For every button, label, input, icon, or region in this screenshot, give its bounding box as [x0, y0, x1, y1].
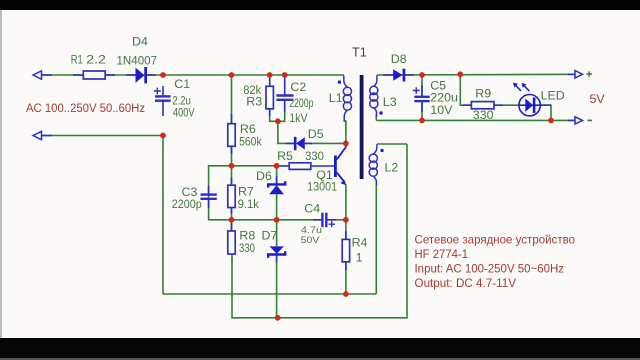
svg-text:330: 330 [239, 241, 255, 255]
node D7 bottom [275, 315, 281, 321]
winding L2 [369, 144, 377, 185]
L2 polarity dot [380, 149, 383, 152]
svg-text:L2: L2 [385, 161, 399, 175]
node emitter [343, 217, 349, 223]
wire R4 leads [345, 220, 347, 240]
node C5 top [419, 72, 425, 78]
wire L2 top to rail B [377, 143, 407, 145]
lead D5 sides [286, 142, 294, 144]
svg-text:Input: AC 100-250V 50~60Hz: Input: AC 100-250V 50~60Hz [415, 262, 565, 276]
svg-text:400V: 400V [173, 106, 195, 120]
lead C1 top [162, 86, 164, 96]
lead D8 left [383, 74, 393, 76]
bottom letterbox bar [0, 338, 640, 360]
svg-text:560k: 560k [239, 135, 262, 149]
svg-text:R1: R1 [71, 52, 83, 66]
wire rail A bottom [163, 293, 376, 295]
winding L1 [343, 76, 351, 122]
wire R9 to LED [494, 104, 519, 106]
lead R4 top [345, 231, 347, 239]
svg-text:2200p: 2200p [289, 96, 313, 110]
svg-text:R5: R5 [277, 149, 293, 163]
C1 plus sign [154, 88, 161, 95]
C5 plus sign [413, 87, 420, 94]
lead C5 top [421, 85, 423, 96]
svg-text:50V: 50V [301, 235, 320, 245]
lead C5 bottom [421, 101, 423, 112]
svg-text:C4: C4 [304, 202, 320, 216]
lead LED right [540, 104, 551, 106]
svg-text:1: 1 [356, 251, 363, 265]
capacitor C3 [201, 195, 217, 199]
resistor R9 [471, 102, 494, 109]
node C2 top [282, 72, 288, 78]
capacitor C2 [276, 96, 293, 100]
svg-text:R4: R4 [352, 235, 368, 249]
lead arrow bottom input [40, 135, 52, 137]
lead R7 top [231, 178, 233, 186]
lead D8 right [406, 74, 415, 76]
node R5 left [274, 163, 280, 169]
wire C1 column down to rail A [162, 136, 164, 295]
svg-text:R9: R9 [475, 86, 491, 100]
wire D6 D7 column [276, 166, 278, 184]
lead output minus arrow [568, 119, 581, 121]
lead C4 right [327, 219, 336, 221]
lead C2 bottom [284, 100, 286, 112]
terminal arrow out plus [575, 71, 583, 78]
lead C2 top [284, 75, 286, 95]
wire R9 branch [460, 74, 471, 105]
lead C3 up [208, 186, 210, 194]
capacitor C4 electrolytic horizontal [322, 213, 326, 228]
resistor R3 [266, 86, 273, 109]
wire rail B bottom [232, 144, 407, 318]
wire R8 leads [231, 220, 233, 231]
label plus terminal [587, 71, 593, 76]
wire R3 bottom join C2 bottom [270, 101, 285, 121]
terminal arrow AC top [33, 71, 42, 79]
capacitor C1 electrolytic [155, 96, 171, 100]
node R6 bottom [229, 163, 235, 169]
svg-text:5V: 5V [590, 92, 606, 106]
svg-text:330: 330 [305, 149, 324, 163]
lead D6 top [276, 176, 278, 184]
wire L2 bottom vertical [375, 184, 377, 294]
svg-text:D6: D6 [256, 169, 272, 183]
transformer core [360, 75, 364, 179]
L1 polarity dot [338, 80, 341, 83]
resistor R8 [228, 231, 235, 254]
lead R5 base wire [311, 165, 334, 167]
wire R6 column [231, 75, 233, 124]
node C2R3 bottom [275, 118, 281, 124]
node R3 top [267, 72, 273, 78]
svg-text:Сетевое зарядное устройство: Сетевое зарядное устройство [415, 232, 576, 246]
svg-text:L3: L3 [383, 95, 397, 109]
svg-text:1N4007: 1N4007 [117, 54, 158, 68]
svg-text:1kV: 1kV [289, 111, 308, 125]
svg-text:Output: DC 4.7-11V: Output: DC 4.7-11V [415, 276, 517, 290]
wire base line y=219.8 from R7 node to emitter node [232, 219, 322, 221]
blue component leads overlay [40, 74, 581, 270]
node C1 bottom [160, 133, 166, 139]
node R7 R8 [229, 217, 235, 223]
svg-text:D5: D5 [308, 127, 324, 141]
transistor Q1 [334, 143, 346, 185]
resistor R1 [83, 71, 105, 79]
lead R9 right [494, 104, 503, 106]
wire LED to bottom rail [540, 105, 551, 120]
wire L3 bottom stub down [375, 114, 377, 120]
svg-text:HF 2774-1: HF 2774-1 [415, 247, 469, 261]
node collector [343, 141, 349, 147]
wire C3 branch [209, 166, 232, 220]
svg-text:C1: C1 [174, 77, 190, 91]
lead output plus arrow [568, 73, 581, 75]
node R9 branch [457, 71, 463, 77]
wire output top rail [377, 73, 581, 76]
terminal arrow out minus [575, 117, 583, 124]
svg-text:D4: D4 [132, 35, 148, 49]
svg-text:13001: 13001 [307, 179, 337, 193]
wire emitter node vertical [345, 185, 347, 220]
zener diode D6 (cathode up) [268, 181, 285, 194]
lead R3 top [269, 75, 271, 86]
LED emission arrows [515, 85, 521, 91]
label minus terminal [588, 119, 593, 121]
left edge shading [0, 10, 2, 338]
zener diode D7 (cathode down) [268, 246, 285, 257]
wire C5 column [421, 75, 423, 96]
node R4 bottom [343, 291, 349, 297]
wire collector node up to L1 bottom [345, 121, 347, 144]
resistor R5 [289, 163, 311, 170]
lead D4 right [147, 74, 157, 76]
wire bottom AC input [40, 135, 163, 137]
node D4-C1 top [160, 72, 166, 78]
svg-text:L1: L1 [329, 91, 343, 105]
wire R7 leads [231, 166, 233, 185]
lead R7 bottom [231, 208, 233, 215]
svg-text:4.7u: 4.7u [301, 225, 322, 235]
node D6 D7 [274, 217, 280, 223]
lead D4 left [126, 74, 136, 76]
terminal arrow AC bottom [33, 131, 42, 139]
svg-text:T1: T1 [352, 45, 367, 59]
wire D5 to collector node [305, 142, 346, 144]
L3 polarity dot [379, 111, 382, 114]
diode D4 [136, 67, 148, 83]
svg-text:10V: 10V [430, 103, 453, 117]
lead arrow top input [40, 74, 52, 76]
node R6 top [229, 72, 235, 78]
svg-text:D7: D7 [262, 229, 278, 243]
winding L3 [370, 75, 378, 117]
capacitor C5 electrolytic [414, 97, 429, 101]
diode D5 [294, 137, 305, 150]
node LED bottom [548, 118, 554, 124]
svg-text:R3: R3 [246, 95, 262, 109]
lead C3 down [208, 200, 210, 208]
svg-text:C2: C2 [290, 80, 306, 94]
svg-text:2.2: 2.2 [86, 52, 106, 66]
svg-text:330: 330 [473, 108, 494, 122]
node C5 bottom [419, 118, 425, 124]
lead C1 bottom [162, 101, 164, 116]
lead C4 left [313, 219, 322, 221]
LED lamp [513, 83, 540, 116]
resistor R4 [342, 239, 349, 262]
svg-text:LED: LED [541, 89, 565, 103]
lead R8 top [231, 223, 233, 231]
svg-text:2200p: 2200p [172, 197, 202, 211]
lead R5 left [277, 165, 289, 167]
top letterbox bar [0, 0, 640, 10]
lead R1 left [73, 74, 83, 76]
resistor R6 [228, 124, 235, 147]
wire R6 bottom to node [231, 146, 233, 166]
lead R9 left [463, 104, 471, 106]
svg-text:D8: D8 [391, 52, 407, 66]
lead D7 bottom [276, 255, 278, 263]
wire C2R3 node down and right to D5 [278, 121, 294, 143]
resistor R7 [228, 185, 235, 207]
wire top AC rail [40, 74, 344, 76]
lead R3 bottom [269, 109, 271, 116]
svg-text:AC 100..250V 50..60Hz: AC 100..250V 50..60Hz [26, 101, 145, 115]
lead R6 top [231, 114, 233, 124]
lead R6 bottom [231, 146, 233, 154]
lead R1 right [105, 74, 115, 76]
C4 plus sign [329, 221, 336, 227]
svg-text:9.1k: 9.1k [238, 197, 260, 211]
wire node Y to R5 node [232, 165, 277, 167]
wire output bottom rail [376, 119, 581, 121]
lead R4 bottom [345, 262, 347, 270]
diode D8 [393, 69, 405, 82]
